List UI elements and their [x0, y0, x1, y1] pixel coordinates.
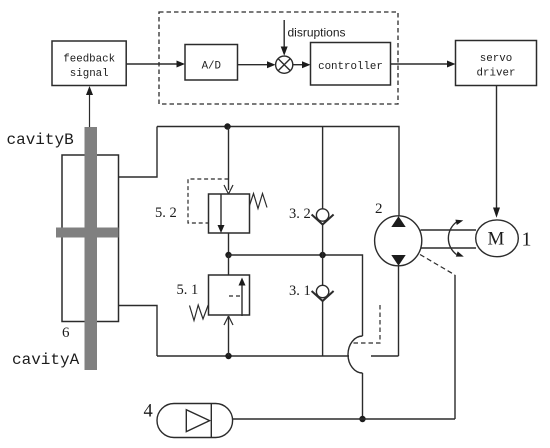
- svg-text:A/D: A/D: [202, 60, 221, 72]
- wire: drain vertical to tank line: [454, 275, 456, 419]
- pump 2: [375, 216, 422, 266]
- svg-text:5. 2: 5. 2: [155, 205, 177, 221]
- spring of valve 5.1: [190, 305, 209, 321]
- svg-text:controller: controller: [318, 61, 383, 73]
- summing junction (mixer with X): [276, 56, 293, 73]
- piston (gray bar): [56, 228, 119, 238]
- check valve 3.2: [312, 127, 334, 256]
- wire: valve 5.2 outlet to middle junction: [228, 233, 230, 255]
- svg-text:6: 6: [62, 325, 70, 341]
- node: junction dot tank line: [359, 416, 365, 422]
- svg-text:2: 2: [375, 201, 383, 217]
- wire: cavityA port to bottom main line: [119, 306, 158, 357]
- wire: bridge hop over bottom line: [348, 336, 363, 373]
- wire: valve 5.1 top to middle junction: [228, 255, 230, 275]
- svg-text:4: 4: [144, 402, 153, 422]
- wire: middle horizontal line: [229, 255, 363, 336]
- wire: arrow from top junction into valve 5.2: [224, 127, 233, 195]
- block: feedback signal: [52, 41, 126, 86]
- block: A/D converter: [185, 45, 238, 81]
- wire: feedback signal to A/D: [126, 61, 185, 68]
- wire: arrow from bottom line into valve 5.1: [224, 316, 233, 356]
- wire: disruptions arrow into mixer: [281, 20, 288, 56]
- block: controller: [311, 43, 391, 86]
- motor M (1): [476, 220, 519, 257]
- pump case drain dashed diagonal: [420, 255, 455, 276]
- wire: pump bottom vertical: [398, 266, 400, 356]
- wire: bottom main line (left of bridge): [157, 355, 349, 357]
- shaft between pump and motor: [421, 230, 477, 248]
- node: junction dot middle left: [225, 252, 231, 258]
- valve 5.2 body: [209, 194, 250, 233]
- svg-text:cavityB: cavityB: [7, 131, 74, 149]
- wire: cavityB port to top main line: [119, 127, 158, 178]
- svg-text:M: M: [488, 229, 505, 250]
- node: junction dot top line: [224, 123, 230, 129]
- wire: servo driver down to motor M: [493, 86, 500, 218]
- wire: A/D to mixer: [238, 61, 276, 68]
- svg-text:feedback: feedback: [63, 53, 115, 65]
- wire: controller to servo driver: [391, 61, 456, 68]
- piston rod (gray): [85, 127, 98, 370]
- rotation arrow on shaft: [448, 220, 463, 257]
- dashed control-loop boundary box: [159, 12, 398, 104]
- svg-text:servo: servo: [480, 53, 512, 65]
- svg-text:5. 1: 5. 1: [177, 282, 199, 298]
- cylinder 6 body: [62, 155, 119, 322]
- pump unit 4 (capsule with triangle): [157, 404, 233, 438]
- check valve 3.1: [312, 255, 334, 356]
- node: junction dot middle right: [319, 252, 325, 258]
- svg-text:driver: driver: [477, 67, 516, 79]
- wire: down to tank line: [362, 373, 364, 419]
- svg-text:signal: signal: [70, 68, 109, 80]
- pilot drain dashed line near pump: [352, 305, 380, 343]
- wire: bottom main line (right of bridge): [371, 355, 399, 357]
- wire: mixer to controller: [293, 61, 311, 68]
- svg-text:3. 1: 3. 1: [289, 283, 311, 299]
- tank line at bottom: [233, 418, 455, 420]
- spring of valve 5.2: [250, 194, 268, 209]
- valve 5.1 body: [209, 275, 250, 316]
- node: junction dot bottom line: [225, 353, 231, 359]
- svg-text:cavityA: cavityA: [12, 351, 80, 369]
- wire: top main line: [157, 127, 399, 217]
- svg-text:disruptions: disruptions: [288, 26, 346, 40]
- block: servo driver: [456, 41, 537, 86]
- wire: piston rod feedback arrow up into feedback signal block: [86, 86, 93, 127]
- svg-text:1: 1: [522, 229, 532, 251]
- pilot dashed line of valve 5.2: [188, 179, 229, 223]
- svg-text:3. 2: 3. 2: [289, 206, 311, 222]
